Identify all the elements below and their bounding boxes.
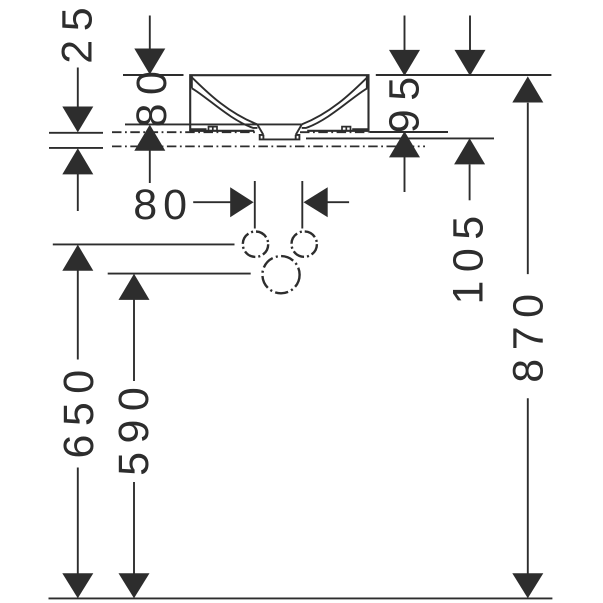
dimension 105 shaft lower	[469, 164, 471, 200]
arrowhead down 105	[455, 50, 486, 76]
wire 25 lower extension	[49, 147, 103, 149]
arrowhead up 590	[119, 274, 150, 300]
hole centre tick right	[301, 181, 303, 229]
wire top extension line left segment	[123, 74, 184, 76]
svg-text:80: 80	[128, 63, 176, 128]
basin bottom right segment	[307, 130, 369, 132]
drain flange inner wall left	[262, 135, 264, 140]
drain funnel slant right	[296, 124, 302, 134]
dimension 590 shaft upper	[133, 300, 135, 382]
arrowhead down 95	[389, 50, 420, 76]
mounting clip left	[209, 127, 218, 131]
arrowhead up 105	[454, 138, 485, 164]
centerline dash-dot lower	[112, 145, 425, 147]
arrowhead down 25	[62, 107, 93, 133]
dimension 25 shaft upper	[77, 68, 79, 108]
wire reference line for 105	[306, 137, 494, 139]
drain hole circle large	[262, 256, 299, 293]
dimension 590 shaft lower	[133, 482, 135, 574]
dimension 25 shaft lower	[77, 174, 79, 211]
arrowhead up 80 vertical	[134, 125, 165, 151]
arrowhead left 80 horizontal	[304, 187, 328, 217]
faucet hole circle right	[292, 231, 317, 256]
dimension 105 shaft upper	[469, 16, 471, 51]
arrowhead down 80 vertical	[134, 49, 165, 75]
hole centre tick left	[254, 181, 256, 229]
centerline dash-dot upper	[112, 131, 258, 133]
basin inner rim stub right	[366, 75, 368, 88]
dimension 870 shaft lower	[527, 398, 529, 574]
dimension 80 horizontal shaft left	[193, 201, 231, 203]
basin foot right	[352, 128, 368, 131]
drain flange outline	[260, 135, 300, 140]
basin inner rim stub left	[191, 75, 193, 88]
svg-text:25: 25	[54, 0, 102, 64]
wire 590 reference line	[108, 273, 251, 275]
arrowhead up 95	[389, 131, 420, 157]
dimension 95 shaft upper	[404, 16, 406, 51]
basin bowl lower curve left	[192, 88, 258, 128]
wire 650 reference line	[53, 243, 235, 245]
arrowhead down 870	[512, 573, 543, 598]
dimension 80 vertical shaft upper	[149, 16, 151, 50]
basin outer profile	[190, 75, 368, 131]
basin bowl upper curve right	[302, 77, 368, 124]
svg-text:650: 650	[55, 361, 103, 458]
centerline dash-dot upper right part	[300, 131, 369, 133]
svg-text:80: 80	[133, 181, 193, 229]
arrowhead down 590	[119, 573, 150, 598]
arrowhead down 650	[62, 573, 93, 598]
faucet hole circle left	[243, 232, 268, 257]
wire countertop surface line	[125, 123, 302, 125]
basin foot left	[190, 128, 206, 131]
dimension 95 shaft lower	[404, 157, 406, 192]
svg-text:590: 590	[110, 379, 158, 476]
basin bowl lower curve right	[302, 88, 368, 128]
arrowhead up 25	[62, 148, 93, 174]
wire 25 upper extension	[49, 132, 103, 134]
dimension 80 vertical shaft lower	[149, 150, 151, 183]
wire bottom reference line	[49, 597, 553, 599]
dimension 650 shaft upper	[77, 270, 79, 359]
dimension 650 shaft lower	[77, 468, 79, 575]
svg-text:105: 105	[444, 207, 492, 304]
drain funnel slant left	[257, 124, 263, 134]
svg-text:95: 95	[380, 68, 428, 133]
arrowhead right 80 horizontal	[230, 187, 253, 217]
arrowhead up 870	[512, 76, 543, 102]
dimension 80 horizontal shaft right	[327, 201, 349, 203]
mounting clip right	[342, 127, 351, 131]
basin bottom left segment	[189, 130, 254, 132]
wire top extension line right segment	[376, 74, 552, 76]
basin bowl upper curve left	[192, 77, 258, 124]
dimension 870 shaft upper	[527, 103, 529, 274]
arrowhead up 650	[62, 245, 93, 271]
wire reference line for 95	[369, 131, 448, 133]
svg-text:870: 870	[505, 285, 553, 382]
drain flange inner wall right	[295, 135, 297, 140]
